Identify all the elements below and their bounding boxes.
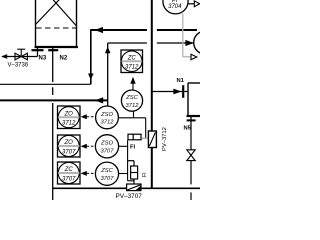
wire line y43 to pump (108, 42, 194, 44)
nozzle N1 flange (182, 85, 184, 98)
svg-text:PV–3707: PV–3707 (116, 193, 143, 200)
svg-text:3707: 3707 (101, 176, 115, 182)
wire N2 drop line (with crossing gaps) (52, 47, 54, 200)
wire drop from N5 (190, 122, 192, 150)
wire top pipe y30 (91, 29, 197, 31)
vessel V1 (top-left tank, top cut off) (35, 0, 79, 47)
svg-text:N2: N2 (60, 56, 68, 62)
arrow right on N1 branch (173, 89, 181, 95)
wire riser x91 (90, 29, 92, 84)
instrument ZSC-3707 (circle) (95, 162, 118, 185)
svg-text:N1: N1 (177, 78, 185, 84)
arrow right on line y43 (185, 40, 193, 46)
svg-text:ZSO: ZSO (100, 112, 113, 118)
gray lead line from 3704 (183, 14, 191, 57)
wire riser x108 (pipe up to line y43) (107, 43, 109, 106)
wire bottom pipe (53, 187, 200, 189)
instrument ZO-3707 square row2 (58, 135, 81, 157)
svg-text:ZO: ZO (64, 111, 74, 117)
svg-text:3707: 3707 (101, 149, 115, 155)
gate valve V-3736 (15, 49, 27, 60)
wire below valve crossing bottom pipe with gap (190, 161, 192, 200)
instrument 3704 bubble (top, cut) (163, 0, 188, 14)
instrument ZC-3712 (shared display square) (121, 50, 143, 73)
wire stub below ZSC (133, 111, 135, 118)
open arrow at end of gray lead (191, 54, 197, 60)
svg-text:3712: 3712 (101, 120, 115, 126)
FI restriction assembly 2 (128, 161, 138, 184)
svg-text:3712: 3712 (126, 103, 140, 109)
pump bubble (right edge, cut) (194, 31, 217, 54)
nozzle N2 (48, 49, 58, 51)
rotameter / control valve PV-3712 (148, 131, 156, 148)
wire row3 stub (119, 173, 128, 175)
wire dashed signal row2 with arrow (81, 144, 96, 149)
wire signal ZSC to ZC with up arrow (132, 84, 134, 90)
instrument ZSO-3712 (circle) (96, 106, 119, 129)
arrow up on riser (105, 47, 111, 54)
instrument ZSO-3707 (circle) (95, 135, 118, 158)
wire thin pipe y84 to left edge (0, 83, 91, 85)
svg-text:V–3736: V–3736 (8, 63, 29, 69)
svg-text:ZO: ZO (64, 140, 74, 146)
svg-text:3712: 3712 (125, 65, 139, 71)
instrument ZC-3707 square row3 (58, 162, 81, 184)
svg-text:PV–3712: PV–3712 (162, 127, 168, 151)
svg-text:FI: FI (142, 172, 148, 177)
arrow left on top pipe (95, 27, 104, 33)
svg-text:ZSC: ZSC (100, 168, 113, 174)
wire signal drop left of FI column (128, 140, 134, 181)
svg-text:N3: N3 (39, 56, 47, 62)
wire row2 stub (119, 145, 128, 147)
wire dashed signal row3 with arrow (81, 171, 96, 176)
svg-text:3712: 3712 (62, 121, 76, 127)
wire N1 branch (152, 91, 182, 93)
svg-text:ZC: ZC (64, 167, 74, 173)
nozzle N5 (190, 116, 192, 122)
arrow down on riser (88, 74, 94, 80)
nozzle N3 (32, 47, 44, 57)
svg-text:3704: 3704 (168, 4, 182, 10)
instrument ZO-3712 square row1 (58, 106, 81, 129)
wire main vertical pipe (151, 0, 153, 188)
svg-text:3707: 3707 (62, 176, 76, 182)
svg-text:3707: 3707 (62, 149, 76, 155)
svg-text:ZSO: ZSO (100, 141, 113, 147)
gate valve on N5 line (187, 150, 195, 161)
wire main thick pipe y100 to left edge (0, 99, 108, 101)
wire ZSO-3712 right line to corner then down (119, 118, 146, 139)
svg-text:ZSC: ZSC (125, 95, 138, 101)
wire dashed signal row1 with arrow (81, 114, 96, 119)
wire 3704 output arrow (188, 3, 194, 5)
arrow left on main pipe (95, 97, 103, 103)
svg-text:FI: FI (130, 144, 136, 150)
control valve PV-3707 (127, 184, 141, 191)
arrow left (off page) (1, 54, 7, 59)
gray capillary to rotameter (142, 137, 149, 139)
svg-text:ZC: ZC (127, 55, 137, 61)
instrument ZSC-3712 (circle) (121, 90, 142, 111)
FI restriction assembly 1 (128, 134, 141, 140)
vessel V2 (right edge) (187, 83, 201, 116)
wire valve line to V-3736 (2, 56, 38, 58)
